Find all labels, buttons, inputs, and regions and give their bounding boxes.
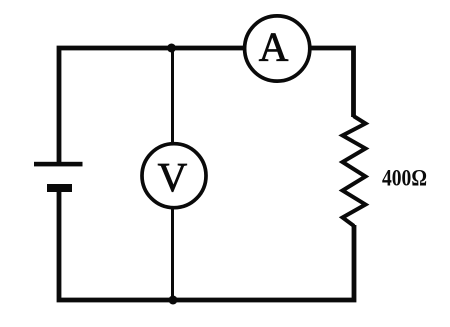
wire middle branch bottom (voltmeter to bottom junction) [171, 208, 174, 300]
wire bottom-left segment up to battery bottom plate [59, 190, 173, 300]
wire ammeter right to top-right corner down to resistor top [311, 48, 354, 117]
wire top-left segment (battery top to ammeter) [59, 48, 243, 164]
resistor R1 zigzag [343, 116, 366, 226]
ammeter A circle [245, 16, 310, 81]
wire resistor bottom to bottom-right corner along bottom [173, 225, 354, 300]
junction dot top node [167, 44, 176, 53]
wire middle branch top (junction to voltmeter) [171, 48, 174, 144]
svg-text:V: V [158, 154, 188, 200]
svg-text:A: A [259, 23, 289, 69]
voltmeter V circle [142, 144, 206, 208]
battery B1 short plate (-) [47, 184, 72, 192]
battery B1 long plate (+) [34, 162, 83, 167]
svg-text:400Ω: 400Ω [382, 166, 427, 191]
junction dot bottom node [169, 296, 178, 305]
